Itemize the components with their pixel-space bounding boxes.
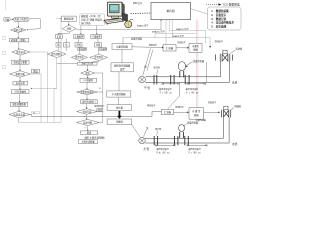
box: close valve	[95, 43, 102, 47]
box: small water controller	[107, 91, 131, 97]
process box: power-on reset	[14, 17, 30, 21]
dimension arrows under lower pipe (flowmeter span)	[156, 144, 208, 146]
dimension arrows under upper pipe (flowmeter span)	[162, 83, 206, 85]
caption box: main program flowchart	[79, 140, 98, 144]
wide box: flow totalize	[78, 62, 98, 65]
svg-text:大 管: 大 管	[143, 147, 149, 151]
left margin marks	[2, 0, 5, 69]
process box: sample flow	[10, 102, 27, 106]
decision diamond: start?	[12, 49, 30, 55]
box: water quantity controller	[112, 44, 132, 50]
svg-text:汇流器: 汇流器	[166, 46, 174, 50]
gate valves and sensor legs on upper pipe	[154, 71, 189, 84]
box: solenoid valve	[107, 119, 132, 125]
small label box: reset	[32, 69, 40, 73]
svg-text:N→: N→	[33, 113, 36, 115]
lower solenoid valve assembly	[222, 110, 231, 118]
svg-text:3. 数据记录: 3. 数据记录	[211, 17, 226, 21]
upper pipe run 干管 with valve-cross V1	[139, 61, 230, 83]
process box: delayed valve close	[81, 100, 98, 104]
lower flow sensor circle	[179, 125, 185, 132]
svg-text:YCS 数据采集: YCS 数据采集	[222, 3, 240, 7]
3-line text block	[80, 14, 105, 26]
process box: initialize	[10, 38, 29, 42]
process box: data computation	[62, 16, 77, 21]
long connector line	[30, 112, 162, 117]
decision diamond: close done	[77, 109, 98, 115]
box: graphical controller setup	[111, 63, 134, 72]
svg-text:5. 历史曲线: 5. 历史曲线	[211, 25, 226, 29]
decision diamond: limit reached	[47, 51, 66, 58]
box: lower-limit alarm	[91, 34, 102, 38]
computer clipart (monitor, keyboard, mouse)	[104, 2, 133, 28]
small label box N	[97, 109, 103, 112]
terminator box: end	[81, 131, 98, 135]
svg-text:记录 次·测量 预设定: 记录 次·测量 预设定	[81, 18, 103, 22]
svg-text:2. 实量显示: 2. 实量显示	[211, 13, 226, 17]
decision diamond: setpoint reached	[9, 111, 30, 118]
upper flow integrator box F1 and sensor box G1	[163, 45, 176, 52]
diagonal control lines to upper pipe	[143, 49, 207, 110]
decision diamond: end judge	[77, 119, 100, 125]
upper motorized valve assembly	[216, 54, 233, 62]
decision diamond: self-check	[11, 27, 27, 32]
svg-text:水池: 水池	[232, 142, 238, 146]
start terminator 开始	[4, 18, 11, 22]
label box: small flow valve R	[99, 48, 107, 51]
box: upper-limit alarm	[74, 34, 84, 38]
svg-text:单片机: 单片机	[166, 9, 175, 13]
controller box 单片机	[151, 3, 191, 20]
faint long vertical bus lines	[19, 18, 62, 122]
YCS data-acquisition label + dashed arrow	[206, 3, 240, 7]
lower pipe run 大管 with valve-cross V2	[139, 117, 229, 143]
svg-text:运行状态: 运行状态	[81, 21, 91, 25]
label box: small flow valve L	[78, 48, 87, 51]
thick down arrow	[117, 111, 121, 119]
svg-text:辅助值（4 ±2）/次: 辅助值（4 ±2）/次	[81, 14, 101, 18]
decision diamond: in place R	[90, 54, 108, 60]
LEFT COLUMN FLOWCHART	[4, 17, 40, 118]
svg-text:（图5 主程序流程图）: （图5 主程序流程图）	[83, 136, 107, 140]
svg-text:1. 数据的采集: 1. 数据的采集	[211, 9, 229, 13]
decision diamond: in place L	[71, 54, 87, 60]
process box: start pump	[13, 81, 28, 85]
svg-text:水池: 水池	[232, 80, 238, 84]
box: inlet water volume	[107, 105, 132, 111]
lower flow integrator box F2 and sensor box G2	[162, 109, 174, 114]
RIGHT COLUMN BOXES	[107, 44, 134, 125]
controller output signal wires	[123, 20, 210, 47]
decision diamond: parameters ok	[10, 71, 31, 77]
box: open valve	[75, 43, 82, 47]
process box: 1-2s delay	[80, 78, 97, 82]
dashed RS485 link computer to controller	[131, 12, 152, 15]
box: limit b	[64, 43, 70, 47]
box: limit a	[56, 43, 61, 47]
process box: open valve	[12, 90, 30, 94]
svg-text:干 管: 干 管	[144, 86, 150, 90]
legend box with 5 blue items	[208, 7, 242, 30]
process box: read parameters	[12, 60, 30, 64]
svg-text:数据运算: 数据运算	[64, 17, 74, 21]
decision diamond: judge	[62, 25, 76, 32]
decision diamond: stable	[81, 71, 95, 76]
decision diamond: continue sampling	[77, 89, 98, 94]
box: forward	[56, 34, 63, 38]
upper flow sensor circle	[178, 62, 185, 71]
MIDDLE COLUMN FLOWCHART	[47, 16, 107, 143]
4-20mA signal wire labels	[137, 24, 189, 38]
